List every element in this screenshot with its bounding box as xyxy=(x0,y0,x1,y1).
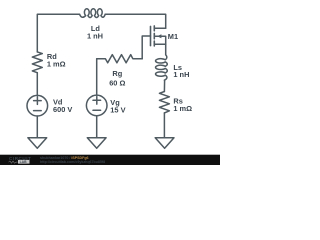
resistor Rs xyxy=(159,92,169,113)
svg-text:60 Ω: 60 Ω xyxy=(109,78,125,87)
M1 channel bars xyxy=(153,26,155,46)
resistor Rg (horizontal) xyxy=(97,55,143,63)
ground (right) xyxy=(155,138,174,149)
wire: Rg to gate xyxy=(142,36,150,59)
voltage source Vg xyxy=(86,95,107,116)
inductor Ld (horizontal coil) xyxy=(80,9,106,18)
watermark bar xyxy=(0,155,220,165)
wire: Rs to ground xyxy=(163,113,165,138)
wire: top-left corner and left vertical to Rd xyxy=(37,14,79,52)
wire: Rd to Vd xyxy=(36,73,38,96)
svg-text:1 mΩ: 1 mΩ xyxy=(173,104,192,113)
logo LAB box xyxy=(18,160,30,164)
wire: top right to MOSFET drain xyxy=(105,14,166,28)
wire: M1 source down to Ls xyxy=(165,44,167,54)
resistor Rd xyxy=(32,52,42,73)
wire: Rg to Vg xyxy=(96,59,98,95)
inductor Ls (vertical coil, transposed Ld) xyxy=(156,55,168,80)
wire: Ls to Rs xyxy=(163,80,165,91)
voltage source Vd xyxy=(27,95,48,116)
svg-text:http://circuitlab.com/c9ykzhq6: http://circuitlab.com/c9ykzhq67bu85f8 xyxy=(40,160,105,164)
svg-text:Rg: Rg xyxy=(112,69,122,78)
logo zigzag xyxy=(9,161,18,163)
wire: Vd to ground xyxy=(36,116,38,138)
ground (left) xyxy=(28,138,47,149)
ground (middle) xyxy=(87,138,106,149)
wire: Vg to ground xyxy=(96,116,98,138)
svg-text:1 nH: 1 nH xyxy=(87,31,103,40)
M1 source lead xyxy=(154,43,165,45)
svg-text:15 V: 15 V xyxy=(110,106,125,115)
M1 drain lead xyxy=(154,27,165,29)
svg-text:1 nH: 1 nH xyxy=(173,70,189,79)
svg-text:LAB: LAB xyxy=(20,160,28,164)
svg-text:M1: M1 xyxy=(168,32,178,41)
M1 body arrow xyxy=(157,34,161,38)
transistor M1 (NMOS) gate plate xyxy=(150,26,152,45)
svg-text:600 V: 600 V xyxy=(53,105,72,114)
M1 body lead with source tie xyxy=(154,36,165,44)
svg-text:1 mΩ: 1 mΩ xyxy=(47,60,66,69)
